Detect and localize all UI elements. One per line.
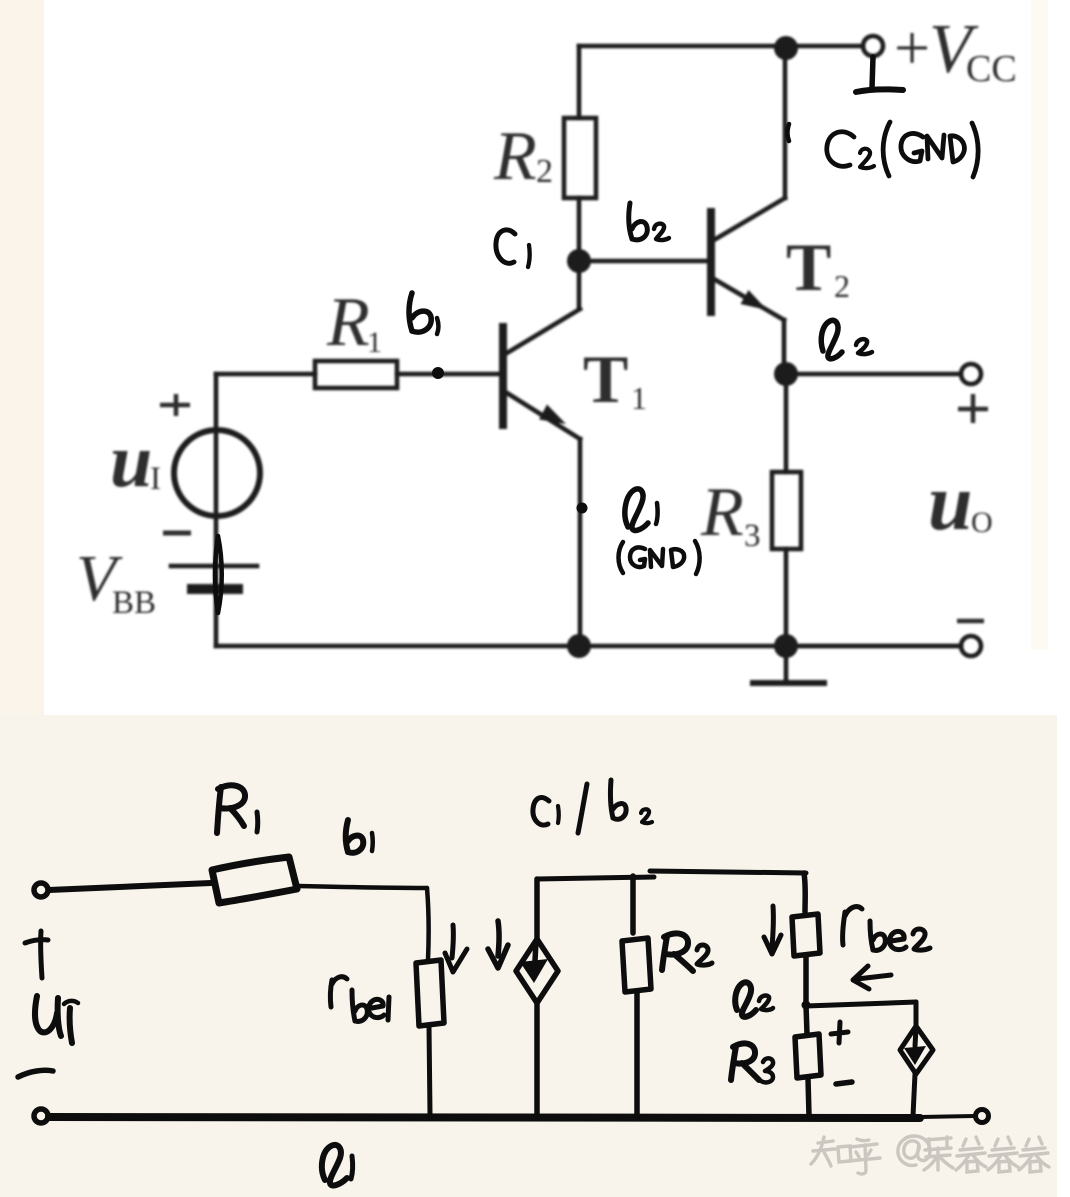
svg-text:R: R — [493, 118, 537, 195]
annotation feedback arrow (hand) — [853, 966, 891, 989]
annotation dot on b1 wire — [432, 367, 444, 379]
resistor R2 — [564, 118, 596, 198]
annotation e2 — [821, 320, 872, 359]
label C1/b2 (hand) — [533, 780, 652, 833]
terminal input bottom circle — [34, 1109, 48, 1123]
svg-text:u: u — [928, 459, 973, 547]
watermark 知乎 @栗卷卷卷 — [811, 1136, 1049, 1174]
svg-text:R: R — [700, 474, 744, 551]
annotation e1 — [625, 489, 658, 531]
label - output polarity — [957, 619, 984, 624]
wire: rbe1 to bottom rail — [429, 1026, 430, 1114]
wire: R3 bottom stub — [784, 549, 789, 646]
ground symbol — [753, 646, 824, 683]
node e2 junction dot (hand) — [802, 1001, 811, 1010]
label - input (hand) — [18, 1070, 53, 1077]
watermark char hu — [848, 1139, 880, 1174]
wire: bottom rail — [216, 644, 961, 649]
wire: T1 base wire from R1 — [397, 372, 503, 377]
resistor R3 (hand) — [795, 1005, 821, 1116]
wire: bottom rail (hand) — [49, 1117, 920, 1118]
resistor rbe1 (hand) — [416, 960, 444, 1026]
wire: R3 top stub — [784, 374, 789, 472]
label e1 (hand) — [322, 1145, 353, 1186]
node junction dot bottom rail under R3 — [774, 634, 798, 658]
node e2 junction dot — [774, 362, 798, 386]
faint cream strip right side of photo — [1031, 0, 1048, 650]
watermark @ — [898, 1136, 930, 1165]
source uI circle — [174, 430, 260, 516]
svg-text:3: 3 — [744, 518, 761, 554]
wire: input top to R1 — [49, 883, 211, 890]
wire: node C1 to T2 base — [579, 259, 711, 264]
svg-text:2: 2 — [834, 268, 850, 304]
resistor rbe2 (hand) — [792, 873, 820, 1003]
label R1 (hand) — [217, 785, 258, 833]
wire: R2 top stub — [577, 46, 582, 118]
label + input polarity — [160, 394, 190, 416]
terminal output + circle — [961, 364, 981, 384]
watermark char juan 1 — [956, 1137, 986, 1172]
annotation tick near T2 collector — [788, 124, 790, 141]
wire: corner down to rbe1 — [427, 888, 429, 960]
svg-text:T: T — [583, 341, 628, 417]
wire: top rail from R2 top to +Vcc terminal — [579, 44, 863, 49]
transistor T2 — [711, 198, 785, 320]
svg-text:R: R — [326, 284, 370, 361]
label e2 (hand) — [735, 982, 773, 1017]
label + near R3 (hand) — [831, 1022, 848, 1043]
watermark char li — [924, 1137, 953, 1170]
wire: R1 to b1 corner — [298, 886, 427, 888]
wire: output top wire — [786, 372, 961, 377]
battery VBB long plate — [171, 564, 257, 569]
annotation b2 — [629, 203, 669, 240]
svg-text:u: u — [110, 419, 152, 503]
svg-text:O: O — [971, 506, 993, 539]
label rbe1 (hand) — [330, 977, 389, 1022]
terminal +Vcc circle — [863, 36, 883, 56]
svg-text:BB: BB — [112, 585, 156, 621]
node junction dot top rail — [774, 36, 798, 60]
annotation ground mark under +Vcc — [856, 57, 903, 92]
node e1 junction dot on bottom rail — [567, 634, 591, 658]
battery VBB short plate — [192, 584, 238, 594]
printed text labels — [76, 11, 1017, 621]
resistor R1 — [315, 361, 397, 388]
annotation C1 — [496, 230, 530, 267]
watermark char juan 2 — [988, 1137, 1018, 1172]
dependent source 1 (hand) — [516, 879, 558, 1116]
annotation b1 — [409, 293, 439, 334]
cream page strip left of photo — [0, 0, 44, 716]
wire: input top wire — [216, 372, 315, 377]
terminal output - circle — [961, 636, 981, 656]
wire: T2 emitter vertical to node e2 — [782, 320, 787, 374]
label - input polarity — [163, 531, 191, 536]
wire: T1 collector vertical — [577, 261, 582, 308]
resistor R1 (hand) — [212, 857, 297, 903]
annotation dot near e1 — [577, 503, 588, 514]
label R3 (hand) — [731, 1043, 773, 1082]
watermark char juan 3 — [1019, 1137, 1049, 1172]
svg-text:+: + — [894, 12, 930, 83]
annotation (GND) — [619, 541, 700, 574]
terminal output bottom circle — [976, 1110, 989, 1123]
wire: left vertical through source — [214, 374, 219, 646]
wire: e2 to source 2 (hand) — [806, 1002, 916, 1006]
label + ui (hand) — [25, 931, 78, 1043]
resistor R3 — [772, 472, 801, 549]
cream background of hand-drawn lower section — [0, 715, 1057, 1197]
wire: output bottom wire — [786, 644, 961, 649]
watermark char zhi — [811, 1137, 851, 1166]
resistor R2 (hand) — [622, 876, 651, 1117]
annotation current arrow 2 — [488, 921, 508, 968]
svg-text:1: 1 — [631, 380, 647, 416]
label R2 (hand) — [662, 933, 712, 971]
wire: bottom rail thin end — [920, 1116, 974, 1117]
label rbe2 (hand) — [843, 907, 930, 951]
transistor T1 — [503, 309, 580, 439]
svg-text:CC: CC — [966, 48, 1017, 90]
dependent source 2 (hand) — [900, 1002, 933, 1116]
wire: top rail right segment (hand) — [650, 871, 806, 873]
annotation current arrow 3 — [764, 906, 781, 954]
svg-text:I: I — [150, 461, 161, 497]
node C1 junction dot — [567, 249, 591, 273]
wire: R2 bottom stub to node C1 — [577, 198, 582, 261]
svg-text:2: 2 — [536, 153, 553, 190]
annotation current arrow 1 — [445, 925, 467, 972]
label b1 (hand) — [346, 820, 373, 853]
label + output polarity — [958, 394, 988, 423]
wire: T2 collector vertical up to top rail — [783, 48, 788, 198]
label - near R3 (hand) — [836, 1082, 852, 1084]
label R3 (printed) — [700, 474, 761, 554]
annotation C2(GND) — [827, 122, 978, 177]
terminal input top circle — [34, 883, 48, 897]
wire: T1 emitter vertical down to bottom rail — [578, 439, 583, 646]
svg-text:1: 1 — [367, 326, 382, 359]
wire: top rail left segment (hand) — [537, 877, 654, 879]
svg-text:T: T — [786, 229, 831, 305]
annotation squiggle crossing battery — [215, 536, 222, 613]
